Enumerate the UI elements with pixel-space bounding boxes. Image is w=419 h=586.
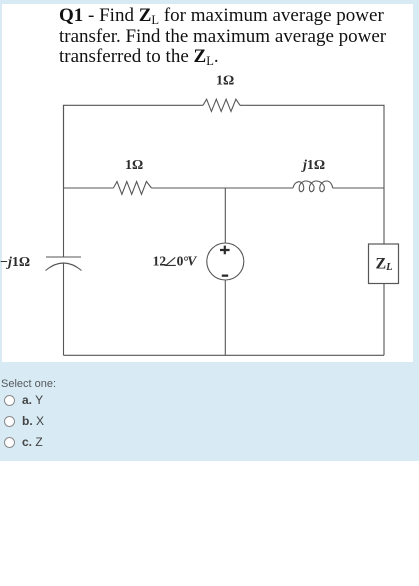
select one prompt bbox=[1, 378, 56, 390]
svg-text:j1Ω: j1Ω bbox=[301, 158, 325, 173]
wire: middle left segment bbox=[64, 187, 114, 189]
option c bbox=[4, 435, 43, 449]
white question content box bbox=[2, 4, 413, 362]
wire: top side left of R1 bbox=[64, 105, 204, 188]
svg-text:1Ω: 1Ω bbox=[125, 158, 143, 173]
source minus sign bbox=[222, 275, 228, 277]
voltage source circle bbox=[207, 243, 244, 280]
wire: center branch below source bbox=[224, 280, 226, 355]
wire: left side bottom (capacitor to bottom) bbox=[63, 263, 65, 355]
load box ZL bbox=[369, 244, 399, 284]
question text bbox=[59, 6, 399, 68]
svg-text:1Ω: 1Ω bbox=[216, 74, 234, 89]
inductor j1ohm bbox=[293, 181, 333, 192]
quiz info blue background bbox=[0, 0, 419, 461]
capacitor -j1ohm top plate bbox=[46, 256, 81, 258]
resistor middle 1ohm bbox=[113, 182, 151, 195]
wire: top side right of R1 bbox=[240, 105, 384, 244]
source plus sign bbox=[220, 246, 230, 255]
wire: middle right of inductor bbox=[333, 187, 384, 189]
wire: right side below ZL bbox=[383, 284, 385, 356]
option b bbox=[4, 414, 44, 428]
wire: left side top (to capacitor) bbox=[63, 105, 65, 257]
svg-text:ZL: ZL bbox=[376, 256, 393, 274]
resistor R top 1ohm bbox=[203, 99, 240, 111]
svg-text:V: V bbox=[187, 254, 197, 269]
wire: center branch above source bbox=[224, 188, 226, 243]
option a bbox=[4, 393, 43, 407]
label source angle symbol bbox=[166, 257, 176, 265]
wire: bottom side bbox=[64, 354, 385, 356]
svg-text:12: 12 bbox=[153, 254, 167, 269]
svg-text:−j1Ω: −j1Ω bbox=[0, 255, 30, 270]
wire: middle between resistor and inductor bbox=[152, 187, 294, 189]
capacitor -j1ohm curved plate bbox=[46, 263, 82, 271]
